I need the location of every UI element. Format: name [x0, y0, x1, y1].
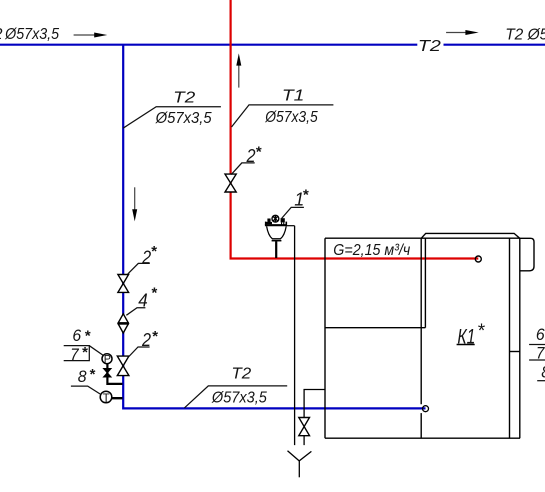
- svg-text:6: 6: [536, 325, 545, 344]
- svg-text:7: 7: [536, 344, 545, 363]
- svg-text:Ø57х3,5: Ø57х3,5: [155, 110, 212, 127]
- svg-text:*: *: [477, 321, 485, 342]
- svg-text:2: 2: [0, 26, 3, 43]
- svg-text:Р: Р: [104, 354, 111, 366]
- svg-text:Ø57х3,5: Ø57х3,5: [264, 109, 317, 126]
- svg-text:7: 7: [70, 345, 79, 364]
- svg-text:Т2: Т2: [418, 38, 441, 55]
- svg-text:8: 8: [78, 367, 87, 386]
- svg-text:Т1: Т1: [282, 87, 305, 104]
- svg-text:Т2 Ø57х3,5: Т2 Ø57х3,5: [505, 26, 545, 43]
- svg-text:2: 2: [141, 330, 151, 350]
- svg-text:6: 6: [72, 326, 81, 345]
- svg-text:2: 2: [246, 146, 256, 166]
- svg-text:Т2: Т2: [231, 366, 251, 383]
- svg-text:К1: К1: [457, 325, 475, 348]
- svg-text:8: 8: [541, 362, 545, 381]
- svg-text:Ø57х3,5: Ø57х3,5: [211, 389, 267, 406]
- svg-text:4: 4: [138, 290, 148, 310]
- svg-text:G=2,15 м³/ч: G=2,15 м³/ч: [333, 242, 410, 259]
- svg-text:Т2: Т2: [173, 89, 195, 106]
- svg-text:Т: Т: [103, 393, 110, 405]
- svg-text:Ø57х3,5: Ø57х3,5: [4, 26, 59, 43]
